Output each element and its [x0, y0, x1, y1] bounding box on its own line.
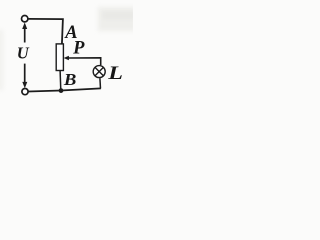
voltage arrow down (source U) — [22, 82, 27, 88]
voltage arrow up (source U) — [22, 22, 27, 29]
svg-text:B: B — [63, 70, 77, 89]
svg-text:P: P — [72, 38, 85, 58]
lamp L cross — [95, 67, 104, 76]
wiper arrow P — [64, 56, 69, 60]
wire: source U lower segment — [24, 64, 26, 84]
potentiometer body (rheostat A-B) — [56, 44, 63, 71]
svg-text:U: U — [17, 44, 30, 63]
wire: bottom bus from lamp to - terminal — [28, 88, 101, 91]
wire: lamp L bottom lead — [99, 78, 102, 88]
wire: potentiometer B lead down to bottom bus — [59, 70, 62, 90]
junction: node B joins bottom bus — [59, 88, 64, 93]
terminal: - terminal (bottom-left) — [22, 89, 28, 95]
wire: top lead from + terminal to node A — [28, 19, 63, 44]
terminal: + terminal (top-left) — [22, 16, 28, 22]
svg-text:L: L — [107, 62, 123, 83]
lamp L body — [93, 66, 105, 78]
wire: wiper P to lamp L top — [68, 58, 100, 65]
wire: source U upper segment — [24, 28, 26, 43]
